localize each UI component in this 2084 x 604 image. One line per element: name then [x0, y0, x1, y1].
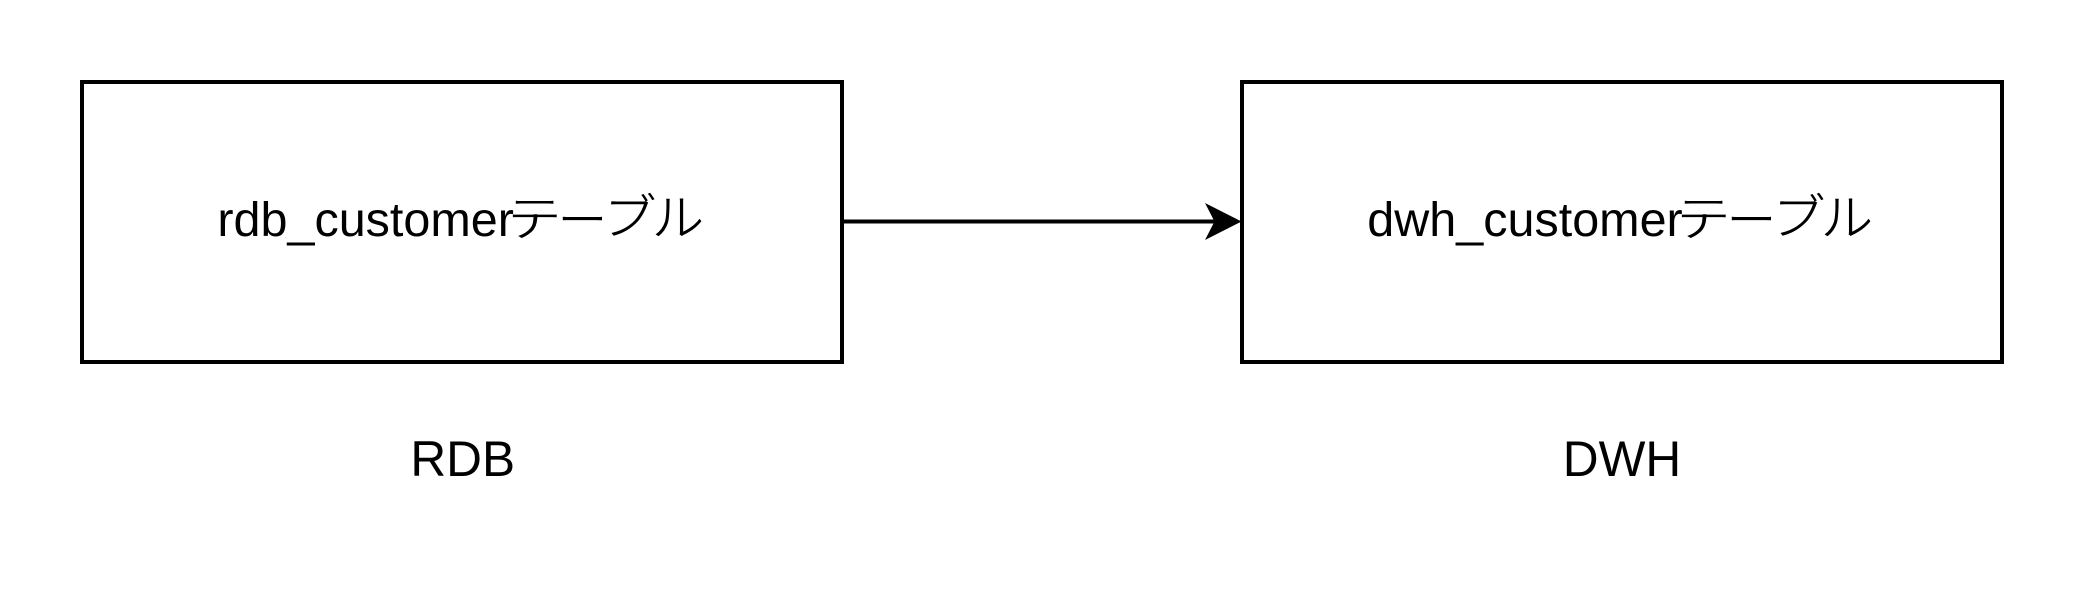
svg-text:rdb_customer: rdb_customer — [217, 193, 514, 247]
svg-text:DWH: DWH — [1563, 431, 1681, 487]
svg-text:dwh_customer: dwh_customer — [1367, 193, 1682, 247]
svg-text:RDB: RDB — [410, 431, 515, 487]
